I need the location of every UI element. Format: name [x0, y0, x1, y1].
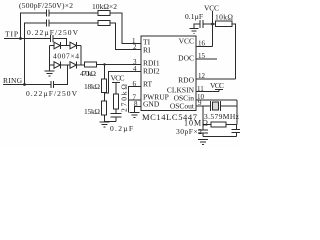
capacitor C7 30pF left plate A — [198, 129, 208, 131]
svg-text:0.22µF/250V: 0.22µF/250V — [26, 89, 78, 98]
VCC tap bar (divider) — [112, 82, 120, 84]
svg-text:6: 6 — [133, 80, 137, 88]
wire pin10 OSCin to right rail — [196, 99, 237, 101]
diode D3 bottom-left — [54, 62, 60, 69]
svg-text:11: 11 — [197, 85, 204, 93]
wire pin11 CLKSIN stub — [196, 91, 219, 93]
diode D4 bottom-right — [70, 62, 76, 69]
ground symbols — [45, 29, 209, 145]
svg-text:RDI2: RDI2 — [143, 67, 160, 76]
capacitor C5 0.2uF plate A — [111, 113, 122, 115]
capacitor C2 500pF plate B — [48, 20, 50, 27]
capacitor C4 0.22uF plate B — [53, 81, 55, 88]
wire pin15 DOC stub — [196, 58, 217, 60]
svg-text:18kΩ: 18kΩ — [84, 82, 100, 91]
svg-text:15: 15 — [198, 52, 206, 60]
wire pin8 GND stub — [135, 107, 142, 113]
svg-text:OSCout: OSCout — [170, 102, 195, 111]
svg-text:2: 2 — [133, 43, 137, 51]
resistor R8 10M box — [211, 122, 226, 127]
wire W2 second coupling line to RI — [25, 23, 47, 85]
svg-text:4: 4 — [133, 65, 137, 73]
svg-text:9: 9 — [198, 99, 202, 107]
crystal X1 right plate — [220, 101, 222, 111]
ground at pin8 — [130, 112, 140, 114]
wire W1 resistor to pin1 — [110, 13, 141, 44]
svg-text:0.22µF/250V: 0.22µF/250V — [27, 28, 79, 37]
resistor R1 10k box — [98, 11, 110, 16]
wire divider from node A down to 18k — [104, 65, 106, 80]
capacitor C3 0.22uF plate A — [50, 35, 52, 42]
resistor R7 10k pullup box — [216, 21, 233, 27]
svg-text:GND: GND — [143, 100, 160, 109]
wire 10k pullup left stub — [213, 23, 216, 25]
wire 18k to 15k — [104, 93, 106, 102]
ground at oscillator — [198, 139, 208, 141]
bridge left edge wire — [49, 46, 51, 66]
wire left cap to bottom rail — [202, 133, 204, 137]
capacitor C6 0.1uF plate A — [199, 20, 201, 28]
ground at bridge — [49, 65, 51, 71]
capacitor C5 0.2uF plate B — [111, 116, 122, 118]
svg-text:4007×4: 4007×4 — [53, 52, 79, 61]
svg-text:3.579MHz: 3.579MHz — [204, 112, 240, 121]
diode D2 top-right — [70, 42, 76, 49]
chip pin names inside — [143, 37, 195, 111]
resistor R4 18k box — [102, 79, 107, 93]
bridge right edge wire — [80, 46, 82, 66]
wire W1 top coupling line to TI — [21, 13, 47, 39]
wire pin4 RDI2 jog to divider tap — [105, 72, 142, 94]
wire 10M right — [226, 124, 237, 126]
wire 15k to ground — [104, 115, 106, 122]
node RING junction — [23, 83, 26, 86]
bridge bottom edge wire — [50, 64, 85, 66]
VCC tap pin11 bar — [215, 89, 223, 91]
wire ground rail divider — [104, 121, 116, 123]
svg-text:12: 12 — [198, 72, 206, 80]
wire 0.1uF to ground — [194, 24, 200, 29]
wire oscillator bottom rail — [203, 136, 237, 138]
wire pin9 OSCout to crystal — [196, 105, 211, 107]
capacitor C6 0.1uF plate B — [202, 20, 204, 28]
svg-text:15kΩ: 15kΩ — [84, 107, 100, 116]
capacitor C3 0.22uF plate B — [52, 35, 54, 42]
diode D1 top-left — [54, 42, 60, 49]
wire RING line — [3, 84, 51, 86]
capacitor C1 500pF plate B — [48, 10, 50, 17]
capacitor C2 500pF plate A — [46, 20, 48, 27]
wire TIP line — [4, 38, 51, 40]
svg-text:16: 16 — [198, 40, 206, 48]
crystal X1 left plate — [210, 101, 212, 111]
svg-text:TIP: TIP — [5, 30, 18, 39]
chip U1 MC14LC5447 body — [141, 36, 196, 111]
wire W2 cap to resistor — [49, 22, 98, 24]
wire osc left rail — [202, 106, 204, 130]
diodes of bridge — [54, 42, 77, 69]
resistor R2 10k box — [98, 21, 110, 26]
capacitor C8 30pF right plate A — [232, 129, 241, 131]
wire 270k to cap — [115, 109, 117, 114]
wire cap to ground rail — [115, 117, 117, 122]
wire crystal to right rail — [221, 105, 238, 107]
wire pin12 RDO stub — [196, 78, 236, 80]
svg-text:VCC: VCC — [179, 37, 194, 46]
svg-text:0.2µF: 0.2µF — [110, 124, 133, 133]
wire W2 resistor to pin2 — [110, 23, 141, 50]
wire pin7 PWRUP stub — [129, 99, 141, 101]
wire 10M left — [203, 124, 211, 126]
wire RING cap to bridge bottom — [54, 65, 68, 85]
svg-text:MC14LC5447: MC14LC5447 — [142, 112, 197, 122]
wire W1 cap to resistor — [49, 12, 98, 14]
svg-text:8: 8 — [134, 100, 138, 108]
ground at divider — [100, 121, 110, 123]
wire 10k pullup to RDO — [232, 24, 236, 79]
wire VCC tee to 270k — [115, 83, 117, 95]
svg-text:0.1µF: 0.1µF — [185, 12, 203, 21]
wire 470k to chip pin3 — [97, 64, 142, 66]
node VCC/0.1uF/10k junction — [211, 23, 214, 26]
svg-text:470kΩ: 470kΩ — [80, 69, 96, 78]
capacitor C8 30pF right plate B — [232, 132, 241, 134]
wire VCC vertical top right — [212, 11, 214, 47]
node 470k/18k junction — [103, 63, 105, 65]
capacitor C4 0.22uF plate A — [50, 81, 52, 88]
svg-text:10kΩ×2: 10kΩ×2 — [92, 2, 117, 11]
wire 0.1uF branch — [203, 23, 213, 25]
svg-text:DOC: DOC — [178, 54, 194, 63]
wire pin6 RT down — [129, 87, 142, 113]
crystal X1 body — [213, 102, 219, 110]
bridge top edge wire — [50, 45, 82, 47]
wire oscillator right rail — [236, 100, 238, 125]
svg-text:VCC: VCC — [204, 4, 219, 13]
capacitor C7 30pF left plate B — [198, 132, 208, 134]
svg-text:VCC: VCC — [210, 81, 224, 90]
wire TIP cap to bridge top — [53, 39, 67, 46]
resistor R5 15k box — [102, 101, 107, 115]
svg-text:RING: RING — [3, 76, 23, 85]
node TIP junction — [19, 37, 22, 40]
capacitor C1 500pF plate A — [46, 10, 48, 17]
svg-text:(500pF/250V)×2: (500pF/250V)×2 — [19, 1, 73, 10]
pin numbers — [132, 37, 206, 108]
svg-text:30pF×2: 30pF×2 — [176, 127, 202, 136]
wire right cap to bottom rail — [236, 133, 238, 137]
svg-text:VCC: VCC — [111, 74, 125, 83]
junction dots — [19, 23, 214, 86]
wire right cap drop — [236, 125, 238, 130]
resistor R3 470k box — [85, 62, 97, 67]
svg-text:RDO: RDO — [178, 76, 194, 85]
svg-text:RI: RI — [143, 46, 151, 55]
svg-text:RT: RT — [143, 80, 153, 89]
VCC tap pin11 vertical — [218, 90, 220, 92]
wire pin16 VCC stub — [196, 46, 213, 48]
ground at 0.1uF — [190, 28, 199, 30]
svg-text:10kΩ: 10kΩ — [215, 13, 233, 22]
resistor R6 270k box — [114, 94, 119, 109]
